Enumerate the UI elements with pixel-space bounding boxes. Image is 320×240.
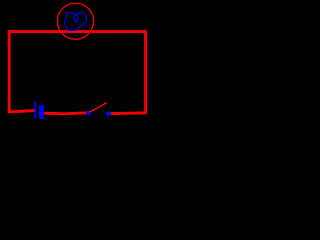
switch lever (open): [90, 104, 106, 112]
wire right vertical: [144, 30, 147, 114]
motor M1 glyph loop entry diagonal: [74, 13, 76, 15]
wire bottom middle segment (battery to switch): [44, 113, 88, 114]
battery short thick plate (negative): [39, 105, 44, 119]
battery long plate (positive): [34, 101, 36, 118]
motor M1 circle body: [57, 3, 93, 39]
motor M1 glyph heart outline: [65, 13, 87, 30]
motor M1 glyph cleft tail: [75, 21, 77, 23]
switch lever tip: [105, 103, 106, 104]
switch contact right node: [106, 111, 111, 116]
switch contact left node: [86, 110, 91, 115]
wire bottom right segment (switch to corner): [109, 111, 147, 115]
motor M1 glyph center loop: [74, 15, 78, 21]
wire bottom left segment (corner to battery): [8, 111, 36, 112]
wire left vertical: [8, 30, 11, 113]
wire top horizontal: [8, 30, 147, 33]
